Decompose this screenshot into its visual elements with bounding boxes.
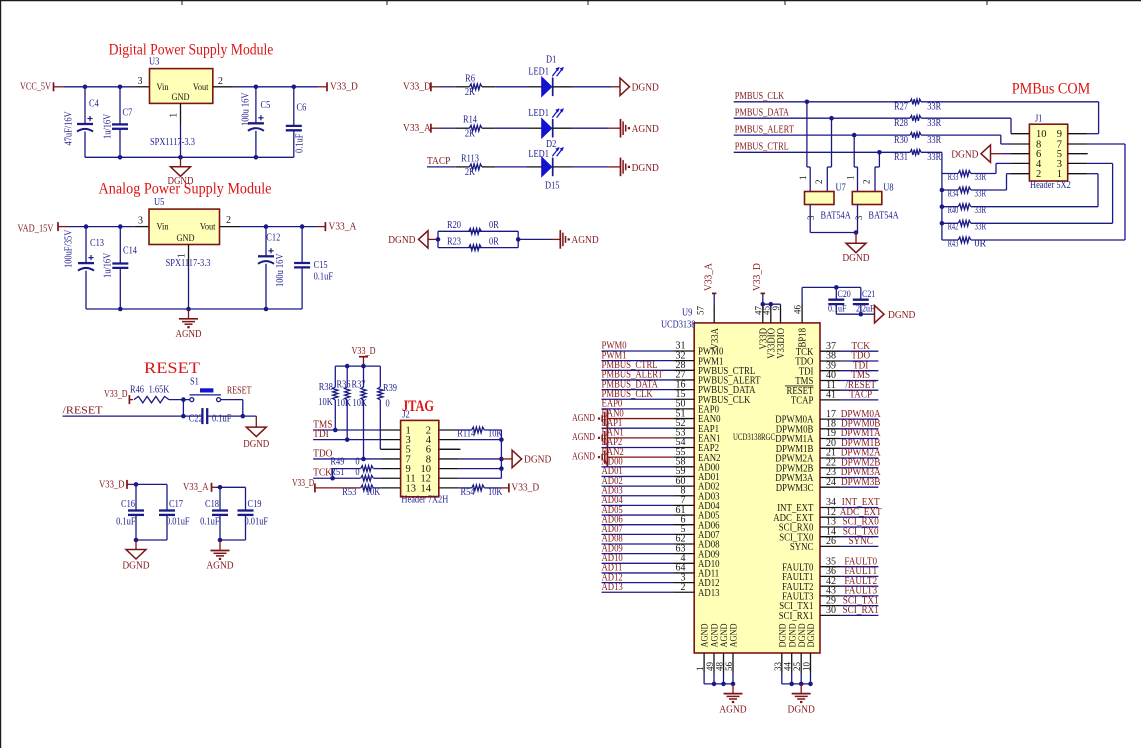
svg-text:TCAP: TCAP [791,396,814,407]
svg-text:41: 41 [826,390,836,401]
svg-text:AGND: AGND [632,124,660,135]
svg-text:/RESET: /RESET [63,405,104,416]
svg-text:R49: R49 [330,457,344,468]
svg-text:DGND: DGND [842,253,870,264]
svg-text:C7: C7 [123,108,133,119]
svg-text:RESET: RESET [227,385,252,396]
svg-text:Vin: Vin [157,83,169,93]
svg-text:V33_A: V33_A [704,263,715,291]
svg-text:1u/16V: 1u/16V [103,252,114,278]
svg-text:C12: C12 [266,233,280,244]
svg-text:BP18: BP18 [798,328,809,348]
svg-text:R34: R34 [948,188,959,199]
svg-text:Digital Power Supply Module: Digital Power Supply Module [109,42,274,59]
svg-text:R51: R51 [330,467,344,478]
svg-text:R46: R46 [130,385,144,396]
svg-text:R113: R113 [461,153,479,164]
svg-text:C14: C14 [123,245,137,256]
svg-text:R36: R36 [337,379,351,390]
svg-text:R42: R42 [948,222,959,233]
svg-text:PMBUS_ALERT: PMBUS_ALERT [735,125,795,136]
svg-text:DGND: DGND [788,623,798,647]
svg-text:V33_D: V33_D [99,479,125,490]
svg-text:V33_D: V33_D [403,82,431,93]
svg-text:PMBUS_CTRL: PMBUS_CTRL [735,142,789,153]
svg-text:1: 1 [1057,169,1062,180]
svg-text:R14: R14 [463,115,477,126]
svg-text:AGND: AGND [571,235,599,246]
svg-text:DGND: DGND [243,439,269,450]
svg-text:DGND: DGND [788,705,816,716]
svg-text:0: 0 [355,467,359,478]
svg-text:Vout: Vout [200,223,216,233]
svg-text:PMBus COM: PMBus COM [1012,80,1091,97]
svg-text:SCI_RX1: SCI_RX1 [779,611,814,622]
svg-text:2: 2 [226,215,231,226]
svg-text:U5: U5 [154,197,164,208]
svg-text:AGND: AGND [701,623,711,647]
svg-text:33R: 33R [927,152,941,163]
svg-text:UCD3138RGC: UCD3138RGC [733,433,775,443]
svg-text:13: 13 [406,483,417,494]
svg-text:1u/16V: 1u/16V [103,113,114,139]
svg-text:2.2uF: 2.2uF [856,305,874,315]
svg-text:V33A: V33A [710,327,721,349]
svg-text:DPWM3C: DPWM3C [776,483,814,494]
svg-text:R28: R28 [894,118,908,129]
svg-text:45: 45 [761,306,771,316]
svg-text:C21: C21 [862,290,876,300]
svg-text:V33_D: V33_D [511,483,539,494]
svg-text:Vout: Vout [193,83,209,93]
svg-text:0.01uF: 0.01uF [166,517,190,528]
svg-text:R37: R37 [352,379,366,390]
svg-text:0.1uF: 0.1uF [116,517,136,528]
svg-text:0.1uF: 0.1uF [212,413,232,424]
svg-text:10: 10 [802,662,812,672]
svg-text:C15: C15 [314,260,328,271]
svg-text:SPX1117-3.3: SPX1117-3.3 [150,137,195,148]
svg-text:56: 56 [724,662,734,672]
svg-text:TACP: TACP [427,156,451,167]
svg-text:AGND: AGND [711,623,721,647]
svg-text:C18: C18 [205,499,219,510]
svg-text:14: 14 [421,483,432,494]
svg-text:LED1: LED1 [528,149,549,160]
svg-text:C5: C5 [261,100,271,111]
svg-text:1: 1 [177,253,188,258]
svg-text:DGND: DGND [632,83,660,94]
svg-text:V33_A: V33_A [403,123,431,134]
svg-text:Analog Power Supply Module: Analog Power Supply Module [99,180,272,197]
svg-text:0.1uF: 0.1uF [314,272,334,283]
svg-text:V33_D: V33_D [352,346,376,357]
svg-text:PMBUS_CLK: PMBUS_CLK [735,91,785,102]
svg-text:V33_D: V33_D [104,389,128,400]
svg-text:DGND: DGND [778,623,788,647]
svg-text:100u 16V: 100u 16V [241,92,252,126]
svg-text:1: 1 [798,176,808,181]
svg-text:AD13: AD13 [698,588,720,599]
svg-text:C16: C16 [121,499,135,510]
svg-text:U7: U7 [836,183,846,194]
svg-text:U3: U3 [149,57,159,68]
svg-text:DGND: DGND [388,235,416,246]
svg-text:DGND: DGND [888,310,916,321]
svg-text:AGND: AGND [720,623,730,647]
svg-text:DGND: DGND [122,561,150,572]
svg-text:R20: R20 [447,220,461,231]
svg-text:BAT54A: BAT54A [868,211,899,222]
svg-text:R40: R40 [948,205,959,216]
svg-text:BAT54A: BAT54A [821,211,852,222]
svg-text:R43: R43 [948,238,959,249]
svg-text:9: 9 [771,306,781,311]
svg-text:C4: C4 [89,99,99,110]
svg-text:1.65K: 1.65K [149,385,170,396]
svg-text:C6: C6 [297,103,307,114]
svg-text:AGND: AGND [572,432,595,443]
svg-text:49: 49 [705,662,715,672]
svg-text:10K: 10K [337,398,352,409]
svg-text:C19: C19 [248,499,262,510]
svg-text:LED1: LED1 [528,108,549,119]
svg-text:V33_A: V33_A [183,482,209,493]
svg-text:J1: J1 [1035,114,1043,125]
svg-text:C13: C13 [90,238,104,249]
svg-text:2: 2 [681,582,686,593]
svg-text:AGND: AGND [572,451,595,462]
svg-text:0R: 0R [489,220,499,231]
svg-text:0: 0 [386,399,390,410]
svg-text:Header 7X2H: Header 7X2H [401,495,448,506]
svg-text:33R: 33R [927,118,941,129]
svg-text:0.1uF: 0.1uF [828,305,846,315]
svg-text:D1: D1 [546,55,556,66]
svg-text:PMBUS_DATA: PMBUS_DATA [735,108,790,119]
svg-text:57: 57 [696,306,706,316]
svg-text:GND: GND [171,93,189,103]
svg-text:47uF/16V: 47uF/16V [64,111,75,146]
svg-text:UCD3138: UCD3138 [661,319,696,330]
svg-text:24: 24 [826,477,836,488]
svg-text:R27: R27 [894,102,908,113]
svg-text:R38: R38 [319,382,333,393]
svg-text:Header 5X2: Header 5X2 [1030,180,1071,191]
svg-text:2K: 2K [465,167,476,178]
svg-text:33: 33 [773,662,783,672]
svg-text:AGND: AGND [176,329,202,340]
svg-text:J2: J2 [402,409,410,420]
svg-text:DGND: DGND [951,149,979,160]
svg-text:2: 2 [1036,169,1041,180]
svg-text:3: 3 [138,216,143,227]
svg-text:R30: R30 [894,135,908,146]
svg-text:1: 1 [169,113,180,118]
svg-text:48: 48 [715,662,725,672]
svg-text:1: 1 [695,667,705,672]
svg-text:R39: R39 [383,383,397,394]
svg-text:V33_D: V33_D [330,82,358,93]
svg-text:V33_D: V33_D [292,478,314,489]
svg-text:R33: R33 [948,172,959,183]
svg-text:AD13: AD13 [602,582,623,593]
svg-text:C17: C17 [169,499,183,510]
svg-text:0.1uF: 0.1uF [200,517,220,528]
svg-text:D15: D15 [545,181,560,192]
svg-text:R23: R23 [447,236,461,247]
svg-text:0.1uF: 0.1uF [295,133,306,153]
svg-text:33R: 33R [927,135,941,146]
svg-text:0R: 0R [489,236,499,247]
svg-text:46: 46 [793,305,803,315]
svg-text:VAD_15V: VAD_15V [18,223,54,234]
svg-text:AGND: AGND [206,561,234,572]
svg-text:SYNC: SYNC [790,542,814,553]
svg-text:44: 44 [783,662,793,672]
svg-text:DGND: DGND [807,623,817,647]
svg-text:DGND: DGND [524,454,552,465]
svg-text:V33DIO: V33DIO [776,328,787,359]
svg-text:U8: U8 [883,183,893,194]
svg-text:33R: 33R [927,102,941,113]
svg-text:0.01uF: 0.01uF [245,517,269,528]
svg-text:TDI: TDI [313,429,329,440]
svg-text:10K: 10K [353,398,368,409]
svg-text:DPWM3B: DPWM3B [841,477,881,488]
svg-text:R53: R53 [342,487,356,498]
svg-text:10K: 10K [318,397,333,408]
svg-text:Vin: Vin [157,223,169,233]
svg-text:U9: U9 [682,308,692,319]
svg-text:2: 2 [862,180,872,185]
svg-text:2: 2 [218,76,223,87]
svg-text:AGND: AGND [730,623,740,647]
svg-text:2: 2 [814,180,824,185]
svg-text:TACP: TACP [849,390,872,401]
svg-text:3: 3 [854,215,864,220]
svg-text:SCI_RX1: SCI_RX1 [843,605,879,616]
svg-text:30: 30 [826,605,836,616]
svg-text:GND: GND [176,234,194,244]
svg-text:RESET: RESET [144,360,201,377]
svg-text:SYNC: SYNC [848,536,873,547]
svg-text:AGND: AGND [719,705,747,716]
svg-text:S1: S1 [190,376,199,387]
svg-text:3: 3 [138,76,143,87]
svg-text:2K: 2K [465,129,476,140]
svg-text:26: 26 [826,536,836,547]
svg-text:2K: 2K [465,87,476,98]
svg-text:R31: R31 [894,152,908,163]
svg-text:VCC_5V: VCC_5V [20,81,51,92]
svg-text:DGND: DGND [632,163,660,174]
svg-text:V33_D: V33_D [752,263,763,291]
svg-text:C22: C22 [189,413,203,424]
svg-text:1: 1 [846,176,856,181]
svg-text:3: 3 [806,215,816,220]
svg-text:AGND: AGND [572,413,595,424]
svg-text:C20: C20 [838,290,852,300]
svg-text:100u 16V: 100u 16V [275,253,286,287]
svg-text:0: 0 [355,457,359,468]
svg-text:R6: R6 [465,73,475,84]
svg-text:V33_A: V33_A [329,221,357,232]
svg-text:100uF/35V: 100uF/35V [64,229,75,268]
svg-text:LED1: LED1 [528,67,549,78]
